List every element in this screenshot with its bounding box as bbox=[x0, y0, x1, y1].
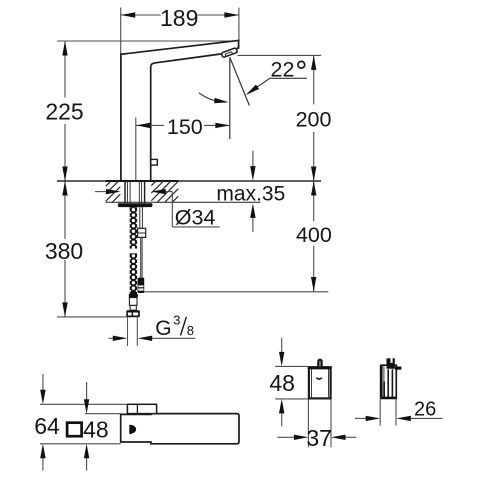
faucet spout underside and right edge bbox=[151, 54, 222, 181]
dim 37 leaders and arrows bbox=[277, 436, 294, 438]
top reference line bbox=[57, 40, 239, 42]
svg-text:Ø34: Ø34 bbox=[175, 206, 216, 230]
dim 48 spout arrows bbox=[86, 382, 88, 400]
svg-text:48: 48 bbox=[83, 417, 109, 443]
dim 189 line bbox=[121, 14, 161, 16]
counter bottom line bbox=[106, 201, 261, 203]
svg-text:150: 150 bbox=[167, 115, 203, 139]
dim 189 extension line left bbox=[120, 8, 122, 55]
cable connector bbox=[138, 228, 146, 237]
cable plug bbox=[138, 278, 145, 293]
dim 150 line bbox=[136, 124, 164, 126]
faucet body outline bbox=[121, 40, 239, 181]
counter hatching left bbox=[106, 181, 111, 186]
cable wire bbox=[140, 237, 142, 277]
side box thick bottom edge bbox=[381, 397, 398, 400]
svg-text:400: 400 bbox=[296, 223, 332, 247]
dim 26 leaders and arrows bbox=[355, 417, 366, 419]
control box front bbox=[309, 367, 331, 398]
svg-text:3: 3 bbox=[173, 312, 180, 327]
dim diameter 34 leader right bbox=[164, 191, 173, 193]
svg-text:max.35: max.35 bbox=[216, 183, 285, 206]
water stream 22 deg line bbox=[230, 57, 250, 105]
svg-text:189: 189 bbox=[160, 5, 198, 31]
svg-text:26: 26 bbox=[414, 398, 436, 420]
diameter 34 leader drop bbox=[171, 192, 173, 227]
svg-text:8: 8 bbox=[187, 323, 194, 338]
svg-text:48: 48 bbox=[269, 370, 295, 396]
dim 400 line bbox=[313, 181, 315, 221]
sensor window block bbox=[127, 404, 156, 413]
sensor D mark bbox=[129, 424, 136, 434]
spout top view outline bbox=[121, 414, 239, 444]
square symbol bbox=[67, 423, 82, 437]
swivel arc arrowhead bbox=[214, 98, 229, 103]
22 deg leader arrowhead bbox=[246, 85, 260, 96]
control box side bbox=[381, 365, 396, 398]
mounting shank bbox=[124, 182, 126, 204]
dim 48 top extension line bbox=[85, 413, 121, 415]
dim diameter 34 leader left bbox=[95, 191, 108, 193]
cable end reference line bbox=[144, 291, 328, 293]
pop-up knob bbox=[151, 159, 158, 165]
aerator level reference line bbox=[238, 54, 322, 56]
box inner lines bbox=[311, 370, 313, 398]
side box stripe lines bbox=[387, 369, 389, 397]
box top thick edge bbox=[308, 367, 332, 370]
dim 150 arrows bbox=[136, 123, 151, 128]
side box right tab bbox=[395, 367, 402, 370]
dim max35 upper arrow bbox=[252, 151, 254, 168]
counter top line thick segment bbox=[106, 180, 179, 182]
dim 26 extension lines bbox=[379, 398, 381, 425]
dim 225 line bbox=[64, 41, 66, 98]
dim 64 top extension line bbox=[40, 403, 127, 405]
svg-text:22: 22 bbox=[271, 57, 295, 81]
cable gland nub bbox=[317, 359, 323, 367]
dim max35 lower arrow bbox=[252, 216, 254, 232]
supply pipe bbox=[127, 317, 129, 346]
counter hatching right bbox=[151, 181, 155, 185]
svg-text:200: 200 bbox=[296, 107, 332, 131]
dim 189 arrows bbox=[121, 12, 136, 17]
degree symbol bbox=[298, 61, 305, 68]
supply hose braid upper bbox=[129, 207, 138, 251]
dim 400 arrows bbox=[311, 181, 316, 196]
box sensor dash bbox=[316, 378, 322, 380]
dim 200 arrows bbox=[311, 55, 316, 70]
side box thick left edge bbox=[380, 366, 383, 398]
dim 200 line bbox=[313, 55, 315, 104]
diameter 34 underline bbox=[172, 226, 219, 228]
hose fitting bbox=[129, 294, 138, 298]
dim 189 extension line right bbox=[238, 8, 240, 50]
svg-text:380: 380 bbox=[45, 238, 83, 264]
hose end reference line bbox=[57, 316, 127, 318]
counter top line bbox=[57, 180, 321, 182]
spout axis extension line bbox=[135, 118, 137, 182]
water stream vertical line bbox=[229, 57, 231, 139]
aerator lens bbox=[225, 52, 232, 57]
svg-text:G: G bbox=[155, 317, 171, 340]
swivel arc bbox=[199, 93, 226, 102]
svg-text:64: 64 bbox=[34, 413, 60, 439]
side box inner thin line bbox=[383, 367, 385, 382]
dim 37 extension lines bbox=[307, 400, 309, 448]
dim 48 box arrows bbox=[281, 338, 283, 352]
dim 48 box extension lines bbox=[275, 365, 308, 367]
base flange bbox=[118, 203, 152, 207]
22 deg leader bbox=[248, 78, 307, 93]
svg-text:225: 225 bbox=[45, 99, 83, 125]
dim 64 arrows bbox=[42, 374, 44, 390]
dim 380 line bbox=[64, 181, 66, 239]
side box connector bbox=[387, 358, 395, 368]
sensor cable tube bbox=[139, 207, 141, 228]
bottom extension line bbox=[40, 443, 121, 445]
dim 225 arrows bbox=[62, 41, 67, 56]
supply hose braid lower bbox=[129, 253, 138, 294]
dim G38 left leader bbox=[109, 337, 116, 339]
aerator bbox=[221, 48, 237, 58]
dim G38 right leader bbox=[150, 337, 195, 339]
svg-text:37: 37 bbox=[306, 425, 332, 451]
dim 380 arrows bbox=[62, 181, 67, 196]
hose nut bbox=[126, 310, 140, 317]
